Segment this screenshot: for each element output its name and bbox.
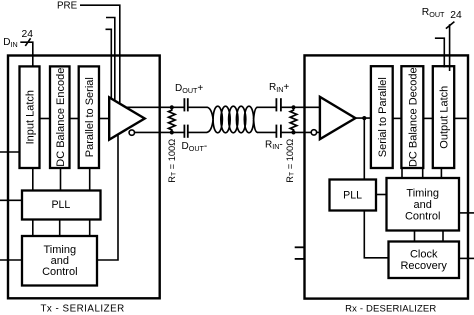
- svg-text:Input Latch: Input Latch: [25, 90, 37, 144]
- svg-text:PRE: PRE: [57, 0, 78, 11]
- svg-text:RT = 100Ω: RT = 100Ω: [167, 139, 177, 183]
- svg-text:DC Balance Decode: DC Balance Decode: [408, 67, 420, 167]
- svg-text:Output Latch: Output Latch: [439, 86, 451, 149]
- svg-text:Parallel to Serial: Parallel to Serial: [84, 77, 96, 157]
- svg-text:Clock: Clock: [410, 249, 438, 261]
- svg-text:Tx - SERIALIZER: Tx - SERIALIZER: [40, 303, 124, 314]
- svg-text:Serial to Parallel: Serial to Parallel: [377, 77, 389, 157]
- svg-text:RT = 100Ω: RT = 100Ω: [285, 139, 295, 183]
- svg-text:Control: Control: [405, 211, 440, 223]
- svg-text:and: and: [414, 199, 432, 211]
- svg-text:PLL: PLL: [343, 190, 362, 202]
- svg-text:24: 24: [22, 29, 34, 40]
- svg-text:Control: Control: [42, 266, 77, 278]
- svg-text:Timing: Timing: [406, 188, 439, 200]
- svg-text:PLL: PLL: [51, 199, 70, 211]
- svg-text:Recovery: Recovery: [400, 260, 447, 272]
- svg-text:Rx - DESERIALIZER: Rx - DESERIALIZER: [345, 303, 436, 314]
- svg-text:DC Balance Encode: DC Balance Encode: [55, 68, 67, 167]
- svg-text:24: 24: [450, 10, 462, 21]
